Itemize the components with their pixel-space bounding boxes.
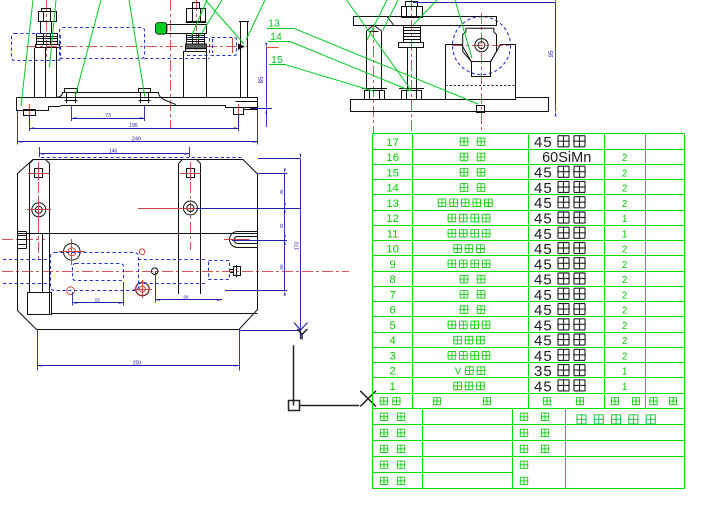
- svg-text:2: 2: [622, 245, 627, 256]
- svg-text:2: 2: [622, 199, 627, 210]
- circle mid-left: [64, 244, 81, 261]
- middle washer: [186, 44, 207, 49]
- locating circles right upright: [183, 201, 197, 215]
- svg-text:11: 11: [387, 228, 399, 240]
- V-block front: [184, 52, 207, 98]
- table header row: [380, 397, 389, 405]
- svg-text:10: 10: [386, 244, 398, 256]
- red circle B with ring: [136, 282, 149, 295]
- locating circles left upright: [32, 203, 46, 217]
- base raised plateau: [57, 93, 176, 105]
- U slot: [230, 232, 259, 248]
- title block labels: [380, 413, 389, 421]
- svg-text:16: 16: [386, 152, 398, 164]
- top view outline: [18, 160, 258, 330]
- svg-text:2: 2: [622, 336, 627, 347]
- side view red centerlines: [373, 26, 375, 133]
- svg-text:35: 35: [279, 189, 284, 195]
- svg-text:13: 13: [386, 198, 398, 210]
- top dims: [18, 141, 258, 143]
- dim 95 right: [413, 2, 556, 4]
- svg-text:5: 5: [389, 320, 395, 332]
- svg-text:32: 32: [279, 223, 284, 229]
- svg-text:55: 55: [95, 298, 101, 303]
- svg-text:4: 4: [389, 335, 395, 347]
- svg-text:2: 2: [622, 153, 627, 164]
- workpiece hidden rect right: [210, 38, 237, 56]
- platform front edge: [18, 233, 258, 235]
- svg-text:240: 240: [132, 137, 141, 143]
- svg-text:12: 12: [386, 213, 398, 225]
- T-bolt mid: [139, 89, 151, 104]
- side screw plan: [234, 267, 241, 276]
- drawing title text: [576, 414, 587, 424]
- middle spring: [187, 34, 205, 45]
- extra green leaders top: [347, 0, 412, 91]
- spring plan coils: [18, 232, 27, 249]
- stud spring: [404, 25, 421, 43]
- svg-text:3: 3: [389, 350, 395, 362]
- front view base plate: [17, 98, 258, 111]
- svg-text:17: 17: [386, 137, 398, 149]
- svg-text:1: 1: [622, 367, 627, 378]
- front view green leaders: [21, 0, 33, 106]
- UCS origin square: [289, 401, 300, 411]
- clamp bar side: [354, 17, 497, 26]
- right upright plan: [178, 164, 180, 295]
- svg-text:2: 2: [622, 260, 627, 271]
- svg-text:2: 2: [622, 275, 627, 286]
- svg-text:68: 68: [183, 295, 189, 300]
- svg-text:14: 14: [386, 183, 398, 195]
- svg-text:2: 2: [622, 321, 627, 332]
- end plate: [241, 22, 248, 98]
- svg-text:60SiMn: 60SiMn: [542, 150, 591, 166]
- svg-text:73: 73: [105, 113, 111, 119]
- svg-text:1: 1: [622, 229, 627, 240]
- left support column: [34, 48, 36, 98]
- stop pin block: [28, 293, 52, 315]
- small black circle: [151, 268, 158, 275]
- small red circle C: [67, 287, 75, 295]
- workpiece prism: [463, 28, 497, 61]
- side base plate: [351, 98, 549, 112]
- left bolt assembly: [42, 9, 51, 12]
- left column with cone tip: [367, 25, 382, 90]
- svg-text:15: 15: [386, 167, 398, 179]
- svg-text:2: 2: [622, 184, 627, 195]
- svg-text:85: 85: [259, 76, 265, 83]
- top view red centerlines: [2, 271, 349, 273]
- screw tip: [238, 44, 245, 51]
- leaders to side view: [294, 28, 478, 104]
- svg-text:2: 2: [622, 351, 627, 362]
- dim 85 vertical: [266, 48, 268, 127]
- left spring: [37, 34, 58, 45]
- svg-text:1: 1: [622, 214, 627, 225]
- center hole circles: [478, 42, 485, 49]
- svg-text:V: V: [455, 366, 462, 377]
- inner apron line: [51, 313, 257, 315]
- svg-text:2: 2: [622, 290, 627, 301]
- workpiece phantom circle: [453, 17, 511, 75]
- V-block side: [446, 45, 516, 100]
- svg-text:9: 9: [389, 259, 395, 271]
- svg-text:13: 13: [268, 18, 280, 30]
- front view left foot: [24, 110, 36, 116]
- T-bolt left: [65, 89, 78, 104]
- hidden line in V-block: [445, 85, 515, 87]
- workpiece hidden rect center: [60, 28, 145, 59]
- front view right foot: [234, 108, 244, 115]
- parts table grid: [373, 134, 685, 489]
- front view red centerlines: [26, 46, 248, 48]
- svg-text:45: 45: [534, 134, 553, 151]
- svg-text:1: 1: [389, 381, 395, 393]
- svg-text:7: 7: [389, 289, 395, 301]
- UCS icon Y label: [298, 329, 308, 340]
- svg-text:170: 170: [295, 242, 301, 251]
- middle bolt assembly: [193, 3, 200, 9]
- UCS icon axis lines: [293, 345, 295, 405]
- clamp plate with green pin tip: [156, 23, 168, 35]
- red tick screw axis: [232, 38, 234, 53]
- svg-text:200: 200: [133, 360, 142, 366]
- guide key: [477, 106, 485, 113]
- svg-text:6: 6: [389, 305, 395, 317]
- screw squares: [35, 169, 43, 178]
- svg-text:50: 50: [279, 264, 284, 270]
- svg-text:2: 2: [389, 366, 395, 378]
- svg-text:8: 8: [389, 274, 395, 286]
- workpiece phantom plan: [51, 253, 139, 291]
- svg-text:2: 2: [622, 168, 627, 179]
- svg-text:95: 95: [549, 50, 555, 57]
- workpiece hidden rect left: [12, 34, 61, 61]
- nuts on base: [365, 91, 385, 100]
- dim 73: [72, 118, 145, 120]
- small red circle A: [139, 249, 145, 255]
- UCS X label: [360, 391, 376, 407]
- dim 195: [29, 128, 239, 130]
- left upright plan: [29, 164, 31, 293]
- stud bolt top: [406, 2, 418, 7]
- svg-text:45: 45: [534, 378, 553, 395]
- svg-text:195: 195: [129, 123, 138, 129]
- svg-text:1: 1: [622, 382, 627, 393]
- svg-text:146: 146: [109, 149, 118, 155]
- svg-text:2: 2: [622, 306, 627, 317]
